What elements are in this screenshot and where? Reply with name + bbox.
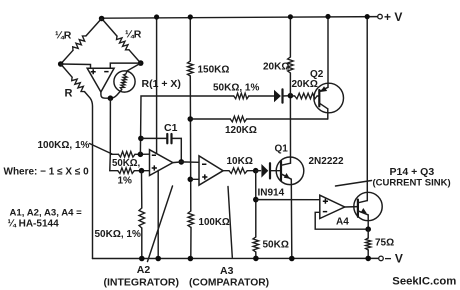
svg-text:R(1 + X): R(1 + X): [142, 78, 181, 90]
svg-text:Where: − 1 ≤ X ≤ 0: Where: − 1 ≤ X ≤ 0: [4, 167, 90, 178]
svg-text:100KΩ: 100KΩ: [199, 217, 230, 228]
op-amp A2 (integrator): [150, 150, 173, 176]
svg-text:C1: C1: [164, 122, 178, 134]
wire: top +V rail: [102, 17, 378, 19]
node X after 10K: [253, 168, 259, 174]
resistor 120K to Q2 collector: [190, 118, 327, 120]
resistor zigzag inside sensor: [126, 71, 128, 74]
resistor R (bridge lower left arm): [61, 64, 93, 259]
label P14 + Q3 CURRENT SINK with leader: [336, 181, 372, 187]
node: A2 + input junction: [139, 168, 145, 174]
wire: A4 output to Q3 base: [345, 206, 358, 208]
node: feedback junction: [138, 136, 144, 142]
wire: A1 output to node: [101, 90, 122, 99]
wire: A2 V+ pin from top rail: [156, 17, 158, 154]
svg-text:SeekIC.com: SeekIC.com: [392, 275, 456, 287]
transistor Q1 2N2222: [276, 157, 304, 185]
op-amp A1: [87, 68, 114, 92]
diode D2 IN914: [256, 170, 261, 172]
op-amp A3 (comparator): [199, 156, 223, 185]
node: A2 output: [179, 159, 185, 165]
wire: down to input resistors: [109, 98, 112, 171]
svg-text:(COMPARATOR): (COMPARATOR): [189, 278, 269, 289]
wire: right node to sensor top: [127, 63, 140, 71]
node: bottom rail junctions: [139, 256, 145, 262]
svg-text:A2: A2: [137, 264, 151, 276]
label A2 INTEGRATOR with leader: [148, 186, 173, 262]
resistor 10K from A3 output: [223, 170, 256, 172]
resistor 50K 1% top: [234, 93, 249, 99]
svg-text:¼R: ¼R: [125, 29, 142, 41]
resistor 150K: [188, 61, 194, 76]
wire: Q3 collector to +V rail: [366, 17, 368, 201]
node: 120K junction: [188, 116, 194, 122]
wire: A2 output to A3 - input: [173, 161, 199, 164]
node: divider to A3 + input: [188, 177, 194, 183]
wire: A4 feedback to Q3 emitter: [315, 212, 368, 229]
svg-text:100KΩ, 1%: 100KΩ, 1%: [38, 140, 90, 151]
terminal -V: [379, 256, 384, 261]
resistor 50K 1% (to A2 + input): [110, 170, 150, 172]
node: bridge right: [138, 60, 144, 66]
terminal +V: [378, 14, 383, 19]
svg-text:50KΩ,: 50KΩ,: [112, 158, 141, 169]
svg-text:50KΩ: 50KΩ: [263, 240, 289, 251]
svg-text:A4: A4: [336, 217, 349, 228]
wire: - input node up, 50K 1% feedback line to diode: [140, 96, 273, 154]
svg-text:P14 + Q3: P14 + Q3: [390, 166, 435, 178]
node: A1 out / sensor bottom: [108, 95, 114, 101]
svg-text:− V: − V: [385, 252, 403, 266]
svg-text:50KΩ, 1%: 50KΩ, 1%: [95, 229, 141, 240]
svg-text:(CURRENT SINK): (CURRENT SINK): [373, 178, 451, 189]
svg-text:2N2222: 2N2222: [309, 156, 344, 167]
svg-text:10KΩ: 10KΩ: [227, 156, 253, 167]
wire: node X down, A4 + input line: [255, 171, 257, 259]
svg-text:20KΩ: 20KΩ: [263, 62, 289, 73]
resistor 100K 1% (to A2 - input): [110, 153, 149, 155]
svg-text:75Ω: 75Ω: [375, 238, 394, 249]
svg-text:IN914: IN914: [258, 188, 285, 199]
svg-text:(INTEGRATOR): (INTEGRATOR): [104, 277, 179, 289]
resistor 1/4R left: [73, 36, 86, 50]
node: Q3 emitter: [365, 226, 371, 232]
resistor 20K vertical from +V: [289, 17, 291, 96]
wire: A2 V- pin to bottom rail: [157, 170, 159, 258]
diode D1: [274, 90, 281, 102]
label A3 COMPARATOR with leader: [228, 187, 232, 258]
svg-text:+ V: + V: [384, 10, 402, 24]
svg-text:¼R: ¼R: [55, 30, 72, 42]
transistor Q3: [354, 192, 382, 220]
node: bridge left: [58, 61, 64, 67]
wire: bottom -V rail: [93, 257, 379, 259]
resistor 1/4R right: [117, 36, 130, 50]
wire: bridge right upper arm lead: [102, 19, 141, 64]
resistor 75 ohm: [367, 229, 369, 258]
svg-text:150KΩ: 150KΩ: [198, 65, 230, 76]
sensor R(1+X) circle: [114, 71, 135, 92]
svg-text:Q1: Q1: [275, 144, 289, 155]
svg-text:120KΩ: 120KΩ: [225, 125, 257, 136]
resistor 20K to Q2 base: [290, 95, 294, 97]
node: bridge top: [99, 16, 105, 22]
wire: right node to A1 - input: [110, 63, 140, 68]
capacitor C1 feedback: [141, 138, 181, 162]
svg-text:1%: 1%: [118, 176, 133, 187]
svg-text:Q2: Q2: [310, 69, 324, 80]
resistor 50K 1% (A2 + to -V): [141, 171, 143, 259]
svg-text:A1, A2, A3, A4 =: A1, A2, A3, A4 =: [10, 208, 83, 219]
wire: bridge left upper arm lead: [61, 19, 102, 65]
wire: divider rail 150K/100K: [189, 17, 192, 259]
transistor Q2: [314, 83, 344, 113]
op-amp A4: [320, 195, 345, 218]
wire: left node to A1 + input: [61, 64, 91, 68]
resistor 50K (node X to -V): [253, 237, 259, 252]
svg-text:50KΩ, 1%: 50KΩ, 1%: [213, 83, 259, 94]
svg-text:R: R: [65, 88, 73, 100]
svg-text:¼ HA-5144: ¼ HA-5144: [8, 219, 60, 230]
svg-text:A3: A3: [220, 265, 234, 277]
svg-text:20KΩ: 20KΩ: [292, 79, 318, 90]
node: A2 - input junction: [138, 152, 144, 158]
resistor 100K (lower divider): [188, 211, 194, 227]
